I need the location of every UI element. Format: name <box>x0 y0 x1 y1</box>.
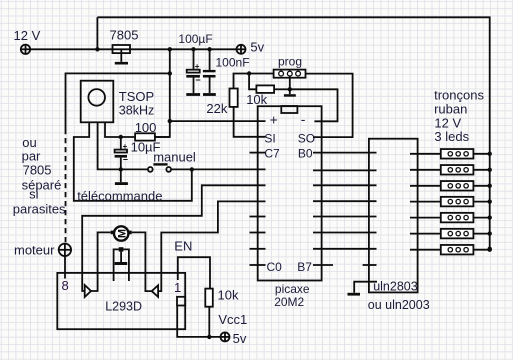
wire input r5 <box>82 185 265 291</box>
svg-text:5v: 5v <box>233 331 247 346</box>
resistor 10k vertical <box>205 289 213 307</box>
wire row b6 <box>313 248 377 250</box>
wire dashed option <box>65 129 67 244</box>
wire motor left <box>91 232 111 291</box>
svg-text:L293D: L293D <box>105 300 142 314</box>
pin stub left r9 <box>250 248 266 250</box>
wire switch to picaxe SI row <box>171 168 265 170</box>
node junction <box>488 231 492 235</box>
svg-text:+: + <box>195 62 200 71</box>
svg-text:1: 1 <box>174 280 181 295</box>
wire tsop pin2 <box>98 122 148 169</box>
ground <box>289 89 291 94</box>
svg-text:manuel: manuel <box>153 149 196 164</box>
svg-text:+: + <box>270 112 278 128</box>
svg-text:10k: 10k <box>246 92 267 107</box>
wire top rail <box>97 17 489 249</box>
node junction <box>488 168 492 172</box>
pin stub C7 <box>250 152 266 154</box>
wire prog right to SO <box>306 74 353 138</box>
IC uln2803 <box>369 139 418 293</box>
svg-text:7805: 7805 <box>23 163 52 178</box>
wire prog serial line <box>234 74 274 89</box>
node 5v terminal <box>237 45 246 54</box>
label ou par 7805 separe si parasites <box>13 135 66 216</box>
wire 10k to ground node <box>274 88 290 90</box>
svg-text:−: − <box>195 75 200 85</box>
wire B0 row to uln <box>313 152 377 154</box>
wire minus pin path <box>290 89 338 121</box>
svg-text:C7: C7 <box>264 146 280 160</box>
node junction <box>191 47 195 51</box>
svg-text:SO: SO <box>298 131 315 145</box>
ground <box>115 62 128 65</box>
wire 22k to SI <box>234 107 266 137</box>
node junction <box>488 248 492 252</box>
IC L293D <box>57 273 185 329</box>
node junction <box>488 247 492 251</box>
wire row b3 <box>313 200 377 202</box>
node junction <box>168 47 172 51</box>
switch manuel <box>148 164 171 171</box>
wire 10k to rail <box>208 307 210 337</box>
svg-text:100: 100 <box>135 120 157 135</box>
node junction <box>119 167 123 171</box>
node junction <box>488 184 492 188</box>
svg-text:picaxe: picaxe <box>275 282 310 296</box>
node junction <box>168 71 172 75</box>
connector LED strip 1 <box>410 149 490 159</box>
pin stub uln in8 <box>363 264 377 266</box>
svg-text:38kHz: 38kHz <box>119 104 154 118</box>
svg-text:22k: 22k <box>206 101 227 116</box>
svg-text:si: si <box>29 187 38 202</box>
wire row b2 <box>313 184 377 186</box>
svg-text:+: + <box>123 142 128 151</box>
node junction <box>119 135 123 139</box>
connector LED strip 7 <box>410 245 490 255</box>
capacitor 10uF <box>115 137 128 169</box>
motor M1 <box>111 226 132 240</box>
node junction <box>168 119 172 123</box>
svg-text:SI: SI <box>264 131 275 145</box>
wire uln ground <box>354 282 377 293</box>
svg-text:M: M <box>116 229 128 238</box>
capacitor 100nF <box>203 49 216 96</box>
resistor 10k <box>256 85 274 93</box>
svg-text:10k: 10k <box>218 288 239 303</box>
node 12V terminal <box>21 45 30 54</box>
svg-text:prog: prog <box>278 55 302 69</box>
wire tsop vcc horizontal <box>66 73 170 129</box>
IC TSOP 38kHz <box>81 81 114 123</box>
svg-text:moteur: moteur <box>14 242 55 257</box>
buffer driver left <box>85 285 91 297</box>
regulator 7805 <box>113 45 131 53</box>
pin stub left r7 <box>250 216 266 218</box>
wire 5v feed to TSOP circuit <box>155 49 170 137</box>
wire row b1 <box>313 169 377 171</box>
pin stub B7 <box>313 264 333 266</box>
svg-text:100nF: 100nF <box>216 55 250 69</box>
wire 12V to 7805 <box>30 48 112 50</box>
svg-text:3 leds: 3 leds <box>434 129 469 144</box>
svg-text:8: 8 <box>62 278 69 293</box>
wire + supply to picaxe <box>170 120 266 122</box>
wire tsop pin1 loop <box>74 122 192 201</box>
svg-text:20M2: 20M2 <box>274 295 304 309</box>
label troncons ruban 12 V 3 leds <box>434 88 484 144</box>
node junction <box>488 215 492 219</box>
connector LED strip 3 <box>410 181 490 191</box>
IC picaxe 20M2 <box>258 106 322 280</box>
svg-text:7805: 7805 <box>110 27 139 42</box>
wire row b5 <box>313 232 377 234</box>
wire moteur to L293D pin8 <box>64 256 66 279</box>
wire prog mid pin <box>289 76 291 89</box>
capacitor motor snubber <box>114 247 129 281</box>
wire resistor to vcc drop <box>155 136 170 138</box>
node junction <box>190 167 194 171</box>
node Vcc1 5v terminal <box>221 332 230 341</box>
svg-text:ou uln2003: ou uln2003 <box>368 298 430 312</box>
svg-text:séparé: séparé <box>22 178 62 193</box>
connector LED strip 2 <box>410 165 490 175</box>
connector prog <box>274 70 306 78</box>
svg-text:télécommande: télécommande <box>77 188 162 203</box>
pin 16 notch <box>177 297 185 306</box>
pin stub left r8 <box>250 232 266 234</box>
svg-text:−: − <box>123 155 128 165</box>
connector LED strip 6 <box>410 229 490 239</box>
capacitor 100uF <box>186 49 200 96</box>
resistor 100 <box>135 133 155 140</box>
ground <box>120 169 122 182</box>
svg-text:uln2803: uln2803 <box>373 279 418 293</box>
wire notch to rail <box>177 306 220 337</box>
svg-text:-: - <box>301 111 306 127</box>
wire rail drop <box>96 17 98 49</box>
node junction <box>288 87 292 91</box>
wire junction to 10k <box>249 74 256 90</box>
node junction <box>95 47 99 51</box>
svg-text:5v: 5v <box>250 40 264 55</box>
svg-text:parasites: parasites <box>13 201 66 216</box>
node moteur terminal <box>59 244 71 256</box>
svg-text:12 V: 12 V <box>14 28 41 43</box>
wire row b4 <box>313 216 377 218</box>
ground <box>348 293 361 296</box>
node junction <box>207 47 211 51</box>
node junction <box>207 335 211 339</box>
pin stub C0 <box>250 264 266 266</box>
svg-text:B7: B7 <box>297 260 312 274</box>
wire EN <box>178 257 210 288</box>
svg-text:Vcc1: Vcc1 <box>218 312 247 327</box>
connector LED strip 4 <box>410 197 490 207</box>
svg-text:tronçons: tronçons <box>434 88 484 103</box>
wire motor right <box>132 232 152 291</box>
node junction <box>488 199 492 203</box>
buffer driver right <box>152 285 158 297</box>
svg-text:B0: B0 <box>298 146 313 160</box>
resistor 22k <box>230 89 238 107</box>
svg-text:TSOP: TSOP <box>119 89 154 104</box>
node junction <box>488 152 492 156</box>
connector LED strip 5 <box>410 213 490 223</box>
svg-text:ruban: ruban <box>434 101 467 116</box>
wire tsop pin3 to resistor <box>105 122 135 137</box>
svg-text:par: par <box>22 148 41 163</box>
wire input r6 <box>158 201 265 291</box>
node junction <box>247 71 251 75</box>
svg-text:EN: EN <box>174 238 192 253</box>
svg-text:C0: C0 <box>267 260 283 274</box>
svg-text:100µF: 100µF <box>178 32 212 46</box>
wire 7805 to 5v <box>130 48 237 50</box>
